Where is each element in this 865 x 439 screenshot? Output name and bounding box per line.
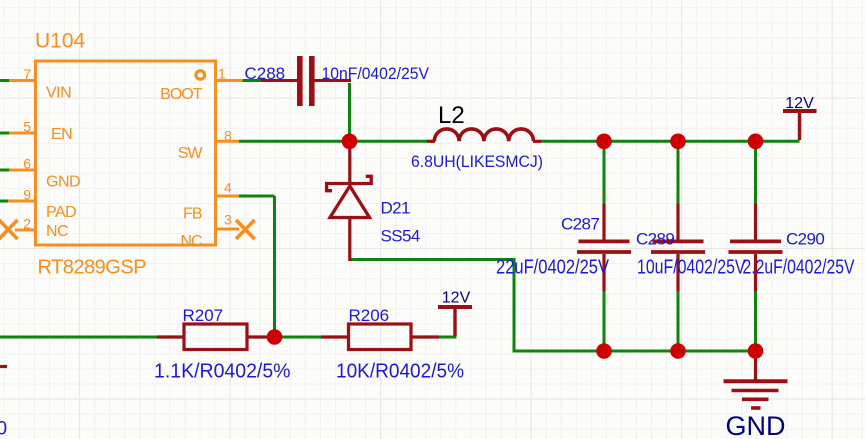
pin 7 stub — [8, 79, 34, 82]
svg-text:12V: 12V — [785, 95, 814, 112]
junction at C290 top — [748, 134, 764, 150]
svg-text:12V: 12V — [442, 290, 471, 307]
svg-text:1.1K/R0402/5%: 1.1K/R0402/5% — [154, 361, 291, 383]
svg-text:RT8289GSP: RT8289GSP — [38, 257, 147, 279]
power symbol 12V top right — [783, 111, 817, 140]
svg-text:NC: NC — [46, 223, 68, 240]
wire between R207 and R206 — [268, 336, 321, 339]
wire pin5 stub green — [0, 132, 9, 135]
svg-text:L2: L2 — [438, 102, 465, 129]
resistor R207 — [157, 324, 270, 350]
svg-text:8: 8 — [224, 128, 232, 144]
wire SW net from pin 8 to inductor — [239, 140, 428, 143]
svg-text:4: 4 — [224, 180, 232, 196]
svg-text:2: 2 — [23, 216, 31, 232]
wire C287 lower lead green — [603, 291, 606, 351]
wire SW output rail from inductor to 12V — [540, 140, 800, 143]
wire pin6 stub green — [0, 169, 9, 172]
wire R206 to 12V stem — [439, 336, 457, 339]
svg-text:FB: FB — [183, 205, 202, 222]
capacitor C290 — [729, 204, 783, 292]
wire C290 upper lead green — [754, 143, 757, 204]
pin 8 stub — [217, 140, 239, 143]
wire C287 upper lead green — [603, 143, 606, 204]
wire pin7 stub green — [0, 79, 9, 82]
svg-text:R207: R207 — [183, 306, 224, 325]
junction at C287 bottom — [596, 343, 612, 359]
pin 6 stub — [8, 169, 34, 172]
no-connect X on pin 2 — [0, 220, 18, 239]
wire divider net left — [0, 336, 157, 339]
junction at C288/SW node — [342, 134, 358, 150]
wire pin9 stub green — [0, 200, 8, 203]
svg-text:SS54: SS54 — [381, 227, 420, 246]
svg-text:5: 5 — [23, 119, 31, 135]
inductor L2 — [427, 129, 541, 141]
svg-text:C290: C290 — [786, 230, 824, 249]
svg-text:SW: SW — [178, 145, 204, 162]
svg-text:0: 0 — [0, 419, 7, 439]
junction at FB divider — [267, 329, 283, 345]
diode D21 (schottky) — [327, 145, 372, 261]
wire C289 upper lead green — [677, 143, 680, 204]
wire C290 lower lead green — [754, 291, 757, 351]
svg-text:7: 7 — [23, 66, 31, 82]
svg-text:10uF/0402/25V: 10uF/0402/25V — [637, 257, 746, 279]
svg-text:10K/R0402/5%: 10K/R0402/5% — [336, 361, 464, 383]
stray component lead at left edge — [0, 365, 7, 368]
svg-text:22uF/0402/25V: 22uF/0402/25V — [496, 257, 610, 279]
BOOT pin inversion bubble — [196, 71, 205, 80]
svg-text:VIN: VIN — [46, 84, 71, 101]
svg-text:2.2uF/0402/25V: 2.2uF/0402/25V — [743, 257, 856, 279]
wire FB horizontal from pin 4 — [239, 195, 275, 198]
wire C288 right lead down to SW net — [348, 83, 351, 137]
resistor R206 — [321, 324, 439, 350]
pin 1 stub — [217, 79, 243, 82]
capacitor C288 — [261, 56, 351, 106]
wire pin1 to C288 — [243, 79, 262, 82]
svg-text:C289: C289 — [636, 230, 674, 249]
junction at C289 bottom — [670, 343, 686, 359]
svg-text:GND: GND — [46, 174, 80, 191]
svg-text:10nF/0402/25V: 10nF/0402/25V — [322, 64, 430, 83]
svg-text:U104: U104 — [35, 30, 86, 53]
svg-text:C287: C287 — [561, 215, 599, 234]
svg-text:1: 1 — [218, 66, 226, 82]
wire FB vertical down to divider — [273, 196, 276, 337]
no-connect X on pin 3 — [236, 220, 255, 239]
junction at C287 top — [596, 134, 612, 150]
capacitor C287 — [577, 204, 631, 292]
svg-text:GND: GND — [726, 411, 786, 439]
svg-text:NC: NC — [180, 233, 202, 250]
capacitor C289 — [651, 204, 705, 292]
svg-text:9: 9 — [23, 187, 31, 203]
ground symbol GND — [724, 351, 788, 408]
svg-text:BOOT: BOOT — [160, 86, 203, 103]
pin 4 stub — [217, 195, 239, 198]
svg-text:6: 6 — [23, 156, 31, 172]
svg-text:D21: D21 — [381, 199, 411, 218]
wire C289 lower lead green — [677, 291, 680, 351]
pin 5 stub — [8, 132, 34, 135]
wire diode anode to ground run — [351, 260, 756, 352]
svg-text:6.8UH(LIKESMCJ): 6.8UH(LIKESMCJ) — [411, 152, 543, 171]
pin 2 stub — [15, 229, 34, 232]
svg-text:C288: C288 — [245, 64, 286, 83]
pin 3 stub — [217, 228, 239, 231]
junction at C289 top — [670, 134, 686, 150]
svg-text:3: 3 — [224, 212, 232, 228]
svg-text:EN: EN — [51, 126, 72, 143]
svg-text:PAD: PAD — [46, 204, 76, 221]
junction at GND node — [748, 343, 764, 359]
pin 9 stub — [8, 200, 34, 203]
power symbol 12V at R206 — [438, 307, 472, 336]
svg-text:R206: R206 — [349, 306, 390, 325]
IC U104 body — [36, 61, 216, 245]
